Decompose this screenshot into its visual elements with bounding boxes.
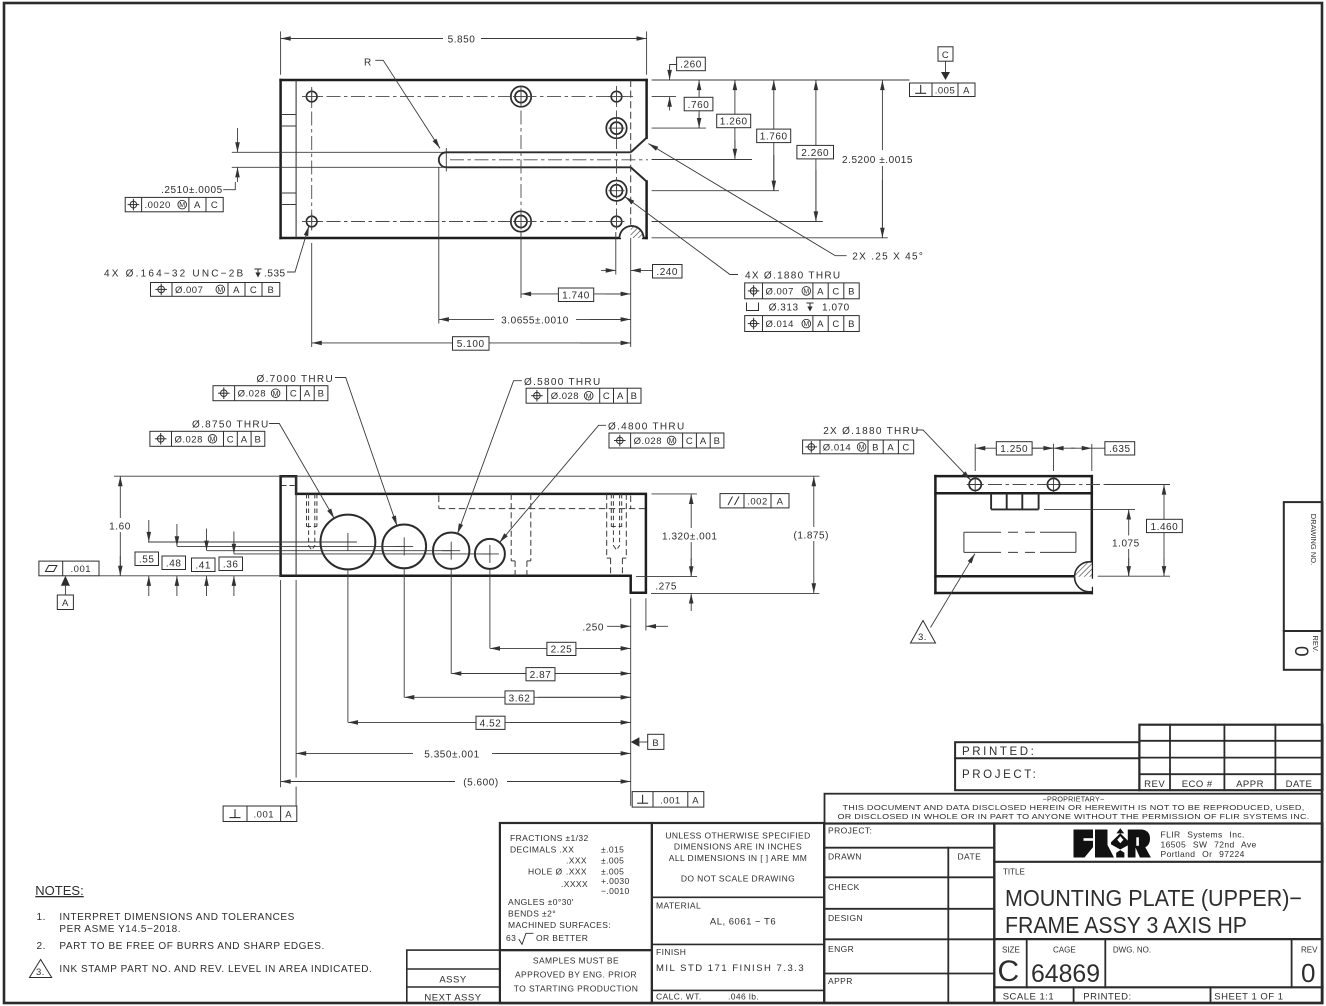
hidden tapped hole left	[307, 494, 317, 550]
svg-text:INK STAMP PART NO. AND REV. LE: INK STAMP PART NO. AND REV. LEVEL IN ARE…	[59, 964, 372, 975]
svg-text:−.0010: −.0010	[601, 886, 630, 896]
svg-text:1.760: 1.760	[760, 132, 788, 143]
svg-text:ASSY: ASSY	[439, 975, 467, 986]
svg-text:Ø.014: Ø.014	[823, 442, 851, 453]
svg-text:B: B	[318, 389, 325, 400]
slot	[439, 152, 631, 167]
svg-text:ECO #: ECO #	[1182, 779, 1213, 790]
svg-text:1.60: 1.60	[109, 522, 131, 533]
svg-text:C: C	[250, 285, 257, 296]
svg-text:DO NOT SCALE DRAWING: DO NOT SCALE DRAWING	[681, 874, 795, 884]
1.460 dim	[1163, 485, 1165, 576]
svg-text:5.850: 5.850	[448, 35, 476, 46]
svg-text:B: B	[714, 436, 721, 447]
svg-text:FRACTIONS ±1/32: FRACTIONS ±1/32	[510, 833, 589, 843]
svg-text:.001: .001	[660, 795, 681, 806]
svg-text:1.260: 1.260	[720, 117, 748, 128]
svg-text:64869: 64869	[1031, 960, 1100, 988]
1.250 dim	[975, 447, 1053, 449]
svg-text:REV: REV	[1144, 779, 1165, 790]
side view outline	[935, 476, 1091, 593]
assy table	[407, 950, 500, 1003]
below-view extension lines	[312, 167, 631, 347]
svg-text:.005: .005	[935, 86, 956, 97]
5.350±.001 dim	[296, 752, 630, 754]
svg-text:4.52: 4.52	[480, 719, 502, 730]
svg-text:UNLESS OTHERWISE SPECIFIED: UNLESS OTHERWISE SPECIFIED	[665, 831, 810, 841]
svg-text:APPROVED BY ENG. PRIOR: APPROVED BY ENG. PRIOR	[515, 970, 637, 980]
svg-text:.48: .48	[166, 559, 182, 570]
svg-text:2.260: 2.260	[801, 148, 829, 159]
svg-text:Ø.014: Ø.014	[766, 319, 794, 330]
FCF perp .001 A (right)	[632, 792, 704, 808]
svg-text:3.62: 3.62	[509, 693, 531, 704]
extension lines above	[975, 444, 1092, 471]
svg-text:.55: .55	[139, 555, 155, 566]
FCF Ø.028 M C A B (2)	[213, 386, 328, 401]
svg-text:63: 63	[506, 933, 516, 943]
svg-text:ENGR: ENGR	[828, 944, 854, 954]
svg-text:3.0655±.0010: 3.0655±.0010	[501, 315, 569, 326]
top extension line	[114, 475, 819, 477]
svg-text:B: B	[254, 434, 261, 445]
svg-text:1.: 1.	[37, 912, 46, 923]
svg-text:A: A	[963, 86, 970, 97]
datum B flag	[631, 737, 640, 747]
svg-text:ALL DIMENSIONS IN [ ] ARE MM: ALL DIMENSIONS IN [ ] ARE MM	[669, 853, 807, 863]
2.25 dim	[490, 647, 631, 649]
svg-text:.001: .001	[254, 810, 275, 821]
2.260 dim	[815, 80, 817, 221]
parallelism FCF .002 A	[720, 494, 789, 508]
ink stamp area rectangle	[964, 532, 1076, 552]
note 3 flag triangle with leader	[911, 621, 936, 644]
svg-text:B: B	[631, 391, 638, 402]
title area frame	[994, 824, 1322, 1004]
svg-text:3.: 3.	[36, 967, 45, 978]
svg-text:.36: .36	[223, 560, 239, 571]
svg-text:+.0030: +.0030	[601, 876, 630, 886]
svg-text:A: A	[62, 598, 69, 609]
svg-text:1.075: 1.075	[1112, 539, 1140, 550]
svg-text:SHEET 1 OF 1: SHEET 1 OF 1	[1214, 992, 1283, 1003]
svg-text:REV: REV	[1301, 946, 1318, 955]
svg-text:R: R	[364, 58, 372, 69]
1.260 dim	[734, 80, 736, 159]
svg-text:2X .25 X 45°: 2X .25 X 45°	[852, 252, 924, 263]
svg-text:4X Ø.164−32 UNC−2B: 4X Ø.164−32 UNC−2B	[104, 269, 245, 280]
svg-text:.XXXX: .XXXX	[561, 879, 588, 889]
svg-text:C: C	[227, 434, 234, 445]
1.740 dim	[521, 293, 630, 295]
svg-text:HOLE Ø: HOLE Ø	[528, 867, 563, 877]
svg-text:B: B	[267, 285, 274, 296]
hidden slot bottom	[439, 496, 645, 509]
svg-text:DRAWING NO.: DRAWING NO.	[1309, 514, 1318, 565]
hidden counterbore column x=616.5	[607, 494, 627, 576]
svg-text:C: C	[942, 50, 949, 61]
.55/.48/.41/.36 hole height dims	[148, 542, 490, 554]
right extension lines	[1044, 485, 1170, 577]
inner left edge line	[295, 80, 297, 238]
bottom extension line	[651, 592, 819, 594]
svg-text:DATE: DATE	[958, 852, 982, 862]
svg-text:1.460: 1.460	[1151, 522, 1179, 533]
svg-text:±.005: ±.005	[601, 856, 624, 866]
svg-text:3.: 3.	[918, 632, 927, 643]
(5.600) dim	[281, 781, 631, 783]
svg-text:A: A	[194, 200, 201, 211]
svg-text:C: C	[603, 391, 610, 402]
svg-text:MACHINED SURFACES:: MACHINED SURFACES:	[508, 920, 611, 930]
inner left tab line	[295, 476, 297, 576]
svg-text:A: A	[285, 810, 292, 821]
svg-text:PER ASME Y14.5−2018.: PER ASME Y14.5−2018.	[59, 924, 181, 935]
svg-text:SCALE 1:1: SCALE 1:1	[1003, 992, 1054, 1003]
svg-text:.2510±.0005: .2510±.0005	[161, 185, 223, 196]
svg-text:C: C	[686, 436, 693, 447]
svg-text:.535: .535	[264, 269, 286, 280]
svg-text:THIS DOCUMENT AND DATA DISCLOS: THIS DOCUMENT AND DATA DISCLOSED HEREIN …	[843, 803, 1305, 812]
FLIR logo	[1074, 828, 1151, 857]
4.52 dim	[348, 721, 631, 723]
half-round notch at bottom edge	[620, 226, 644, 250]
svg-text:Ø.028: Ø.028	[551, 391, 579, 402]
svg-text:1.740: 1.740	[562, 291, 590, 302]
centerlines	[302, 86, 648, 232]
.240 dim	[601, 269, 616, 271]
svg-text:FLIR Systems Inc.: FLIR Systems Inc.	[1161, 830, 1245, 840]
svg-text:NOTES:: NOTES:	[35, 883, 83, 898]
.250 dim	[607, 625, 631, 627]
svg-text:REV.: REV.	[1311, 635, 1320, 652]
surface finish check symbol	[519, 933, 533, 944]
svg-text:AL, 6061 − T6: AL, 6061 − T6	[710, 917, 776, 928]
svg-text:2.25: 2.25	[551, 645, 573, 656]
svg-text:A: A	[304, 389, 311, 400]
svg-text:.001: .001	[71, 564, 92, 575]
svg-text:PROJECT:: PROJECT:	[828, 826, 872, 836]
svg-text:A: A	[617, 391, 624, 402]
left edge tick marks	[281, 115, 297, 205]
svg-text:OR DISCLOSED IN WHOLE OR IN PA: OR DISCLOSED IN WHOLE OR IN PART TO ANYO…	[838, 812, 1310, 821]
svg-text:C: C	[902, 442, 909, 453]
signature column	[824, 824, 994, 1004]
svg-text:16505 SW 72nd Ave: 16505 SW 72nd Ave	[1161, 840, 1257, 850]
3.0655±.0010 dim	[439, 318, 631, 320]
FCF perpendicularity .005 A	[910, 83, 976, 97]
.2510 slot width dim	[223, 128, 443, 190]
svg-text:.XXX: .XXX	[566, 856, 587, 866]
hidden step edge (dashed)	[630, 80, 632, 238]
svg-text:DRAWN: DRAWN	[828, 852, 862, 862]
plate outline (top view)	[281, 80, 647, 238]
2.5200 ±.0015 dim	[881, 80, 883, 238]
bore Ø.8750	[321, 515, 376, 570]
svg-text:0: 0	[1290, 646, 1311, 657]
FCF position .0020 M A C	[125, 197, 223, 211]
svg-text:C: C	[832, 286, 839, 297]
svg-text:APPR: APPR	[1236, 779, 1264, 790]
title text	[998, 868, 1319, 1003]
svg-text:.635: .635	[1109, 444, 1131, 455]
svg-text:.002: .002	[747, 496, 768, 507]
front view outline	[281, 476, 646, 593]
svg-text:C: C	[290, 389, 297, 400]
svg-text:A: A	[692, 795, 699, 806]
note 3 flag	[30, 960, 52, 978]
svg-text:(5.600): (5.600)	[463, 778, 499, 789]
2.87 dim	[451, 673, 630, 675]
1.60 dim	[119, 476, 121, 575]
svg-text:1.250: 1.250	[1000, 444, 1028, 455]
castellation squares	[991, 493, 1039, 509]
svg-text:MATERIAL: MATERIAL	[656, 901, 701, 911]
svg-text:MOUNTING PLATE (UPPER)−: MOUNTING PLATE (UPPER)−	[1005, 885, 1302, 911]
svg-text:Ø.028: Ø.028	[238, 389, 266, 400]
svg-text:Ø.007: Ø.007	[175, 285, 203, 296]
svg-text:A: A	[700, 436, 707, 447]
svg-text:Ø.5800 THRU: Ø.5800 THRU	[524, 377, 601, 388]
svg-text:4X Ø.1880 THRU: 4X Ø.1880 THRU	[745, 271, 841, 282]
5.100 dim	[312, 342, 631, 344]
chamfer 2X .25 X 45	[631, 138, 647, 182]
svg-text:.260: .260	[680, 60, 702, 71]
svg-text:Ø.028: Ø.028	[175, 434, 203, 445]
svg-text:DATE: DATE	[1286, 779, 1313, 790]
svg-text:B: B	[848, 319, 855, 330]
bottom edge extension (datum A plane)	[99, 575, 281, 577]
svg-text:B: B	[652, 738, 659, 749]
svg-text:2.5200 ±.0015: 2.5200 ±.0015	[842, 155, 913, 166]
svg-text:DIMENSIONS ARE IN INCHES: DIMENSIONS ARE IN INCHES	[674, 842, 802, 852]
.760 dim	[698, 80, 700, 128]
counterbored holes 4X Ø.1880	[511, 86, 627, 231]
svg-text:PART TO BE FREE OF BURRS AND S: PART TO BE FREE OF BURRS AND SHARP EDGES…	[59, 941, 324, 952]
hidden counterbore column x=521	[511, 494, 531, 576]
svg-text:ANGLES ±0°30': ANGLES ±0°30'	[508, 897, 574, 907]
svg-text:CAGE: CAGE	[1053, 946, 1076, 955]
svg-text:.41: .41	[195, 561, 211, 572]
svg-text:NEXT ASSY: NEXT ASSY	[424, 993, 481, 1004]
svg-text:Ø.313: Ø.313	[769, 303, 799, 314]
bore Ø.5800	[433, 533, 469, 569]
svg-text:SAMPLES MUST BE: SAMPLES MUST BE	[533, 956, 619, 966]
vertical extensions below	[281, 568, 646, 806]
svg-text:Ø.028: Ø.028	[634, 436, 662, 447]
holes 2X Ø.1880	[969, 478, 981, 490]
svg-text:DECIMALS .XX: DECIMALS .XX	[510, 845, 574, 855]
notch hatched half	[620, 226, 644, 250]
svg-text:±.015: ±.015	[601, 845, 624, 855]
printed/project block	[955, 742, 1139, 790]
svg-text:1.070: 1.070	[822, 303, 850, 314]
svg-text:PRINTED:: PRINTED:	[1083, 992, 1131, 1003]
proprietary box	[825, 794, 1323, 824]
bore Ø.4800	[475, 539, 505, 569]
svg-text:DESIGN: DESIGN	[828, 913, 863, 923]
svg-text:2X Ø.1880 THRU: 2X Ø.1880 THRU	[823, 426, 919, 437]
svg-text:Ø.7000 THRU: Ø.7000 THRU	[257, 374, 334, 385]
svg-text:TITLE: TITLE	[1003, 868, 1025, 877]
svg-text:5.350±.001: 5.350±.001	[424, 749, 479, 760]
rev/eco grid	[1139, 725, 1322, 791]
svg-text:Portland Or 97224: Portland Or 97224	[1161, 849, 1245, 859]
FCF Ø.028 M C A B (1)	[150, 431, 265, 446]
svg-text:.240: .240	[656, 267, 678, 278]
right side: 1.320 dim	[652, 493, 698, 495]
svg-text:CALC. WT.: CALC. WT.	[656, 992, 702, 1002]
svg-text:A: A	[887, 442, 894, 453]
svg-text:0: 0	[1301, 958, 1315, 988]
.635 dim	[1054, 447, 1075, 449]
half-round notch hatched section	[1075, 562, 1105, 592]
.275 dim	[636, 575, 697, 577]
FCF position Ø.007 M A C B (tapped holes)	[151, 283, 280, 297]
FCF Ø.028 M C A B (4)	[609, 433, 724, 448]
svg-text:Ø.007: Ø.007	[766, 286, 794, 297]
svg-text:BENDS ±2°: BENDS ±2°	[508, 909, 556, 919]
svg-text:.0020: .0020	[145, 200, 171, 211]
svg-text:Ø.4800 THRU: Ø.4800 THRU	[608, 421, 685, 432]
flatness FCF .001	[39, 561, 99, 576]
svg-text:Ø.8750 THRU: Ø.8750 THRU	[192, 420, 269, 431]
samples box text	[514, 956, 639, 994]
bore center marks	[339, 533, 499, 563]
1.760 dim	[773, 80, 775, 190]
svg-text:5.100: 5.100	[457, 339, 485, 350]
svg-text:PRINTED:: PRINTED:	[962, 746, 1036, 758]
svg-text:INTERPRET DIMENSIONS AND TOLER: INTERPRET DIMENSIONS AND TOLERANCES	[59, 912, 294, 923]
slot end center tick	[445, 148, 447, 172]
svg-text:B: B	[872, 442, 879, 453]
svg-text:SIZE: SIZE	[1002, 946, 1020, 955]
svg-text:2.: 2.	[37, 941, 46, 952]
drawing no. strip	[1284, 502, 1323, 670]
half-round notch lower opening (white)	[1075, 562, 1105, 592]
svg-text:.250: .250	[582, 622, 604, 633]
FCF position Ø.014 M B A C	[803, 440, 914, 454]
(1.875) overall dim	[813, 476, 815, 496]
bore Ø.7000	[382, 525, 426, 569]
svg-text:A: A	[233, 285, 240, 296]
svg-text:C: C	[998, 955, 1020, 988]
tapped hole top-left	[306, 91, 621, 227]
svg-text:C: C	[211, 200, 218, 211]
.260 dim with hook leader	[677, 57, 706, 70]
svg-text:B: B	[848, 286, 855, 297]
svg-text:MIL STD 171 FINISH 7.3.3: MIL STD 171 FINISH 7.3.3	[656, 963, 805, 974]
svg-text:A: A	[817, 286, 824, 297]
svg-text:APPR: APPR	[828, 976, 853, 986]
svg-text:(1.875): (1.875)	[794, 531, 830, 542]
svg-text:1.320±.001: 1.320±.001	[662, 532, 717, 543]
svg-text:2.87: 2.87	[530, 670, 552, 681]
datum A flag	[61, 576, 70, 586]
FCF perp .001 A (left)	[223, 806, 297, 822]
svg-text:.275: .275	[655, 582, 677, 593]
svg-text:PROJECT:: PROJECT:	[962, 769, 1038, 781]
svg-text:TO STARTING PRODUCTION: TO STARTING PRODUCTION	[514, 984, 639, 994]
hole centerline	[988, 484, 1105, 486]
datum C flag	[938, 47, 953, 61]
svg-text:FRAME ASSY 3 AXIS HP: FRAME ASSY 3 AXIS HP	[1005, 912, 1247, 938]
svg-text:DWG. NO.: DWG. NO.	[1113, 946, 1151, 955]
svg-text:A: A	[241, 434, 248, 445]
svg-text:C: C	[832, 319, 839, 330]
4X Ø.1880 THRU callout	[625, 197, 738, 275]
FCF Ø.028 M C A B (3)	[526, 388, 641, 403]
3.62 dim	[404, 696, 630, 698]
svg-text:CHECK: CHECK	[828, 882, 860, 892]
FCF position Ø.007 M A C B (cbore holes)	[745, 283, 860, 299]
right-side row extension lines	[652, 80, 910, 238]
svg-text:.XXX: .XXX	[566, 867, 587, 877]
center block: material/finish	[652, 823, 824, 1003]
2X .25 X 45 chamfer callout	[649, 144, 847, 256]
1.075 dim	[1128, 510, 1130, 577]
counterbore Ø.313 depth 1.070 row	[747, 303, 759, 311]
hidden tick on tab	[282, 485, 296, 487]
svg-text:±.005: ±.005	[601, 867, 624, 877]
svg-text:OR BETTER: OR BETTER	[536, 933, 588, 943]
svg-text:A: A	[777, 496, 784, 507]
hidden tapped hole right	[611, 494, 621, 550]
svg-text:FINISH: FINISH	[656, 947, 686, 957]
svg-text:A: A	[817, 319, 824, 330]
tolerance block	[500, 823, 652, 1003]
svg-text:.046 lb.: .046 lb.	[728, 992, 759, 1002]
svg-text:.760: .760	[688, 100, 710, 111]
FCF position Ø.014 M A C B	[745, 316, 860, 332]
dimension 5.850	[281, 31, 647, 74]
